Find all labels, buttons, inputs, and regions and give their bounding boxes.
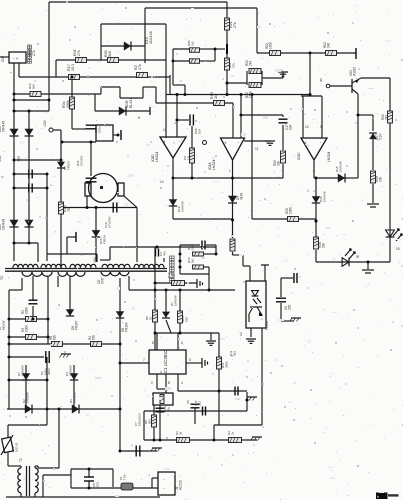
svg-text:390k: 390k: [224, 361, 228, 368]
svg-text:1N4148: 1N4148: [2, 121, 6, 132]
svg-text:11: 11: [255, 147, 259, 151]
svg-text:4: 4: [181, 381, 183, 385]
svg-text:IC1 UC3842: IC1 UC3842: [163, 349, 168, 374]
svg-text:5: 5: [189, 358, 191, 362]
svg-text:9: 9: [320, 125, 322, 129]
svg-text:EL431: EL431: [129, 98, 133, 108]
svg-text:3k: 3k: [178, 431, 182, 435]
svg-text:-18V: -18V: [0, 154, 2, 162]
svg-text:100k: 100k: [289, 207, 293, 214]
svg-text:1k2: 1k2: [190, 41, 194, 46]
svg-text:220: 220: [288, 304, 292, 310]
svg-text:27V/50V: 27V/50V: [107, 216, 111, 228]
svg-text:62k: 62k: [92, 334, 96, 340]
svg-text:100k: 100k: [25, 325, 29, 332]
svg-text:A1015: A1015: [353, 67, 357, 76]
svg-text:75: 75: [67, 208, 71, 212]
svg-text:961: 961: [147, 419, 151, 424]
svg-text:222: 222: [197, 401, 201, 406]
svg-text:1N4148: 1N4148: [173, 295, 177, 306]
svg-text:1N4148: 1N4148: [149, 31, 153, 44]
svg-text:27k: 27k: [32, 50, 36, 56]
svg-text:+: +: [10, 71, 12, 75]
svg-text:1N4148: 1N4148: [322, 191, 326, 202]
svg-text:104: 104: [289, 124, 293, 130]
svg-text:400V: 400V: [47, 368, 51, 375]
svg-text:1N4148: 1N4148: [2, 219, 6, 230]
svg-text:5k6: 5k6: [31, 84, 35, 89]
svg-text:100k: 100k: [66, 100, 70, 108]
svg-text:12: 12: [163, 128, 167, 132]
svg-text:7: 7: [143, 358, 145, 362]
svg-text:1k: 1k: [230, 431, 234, 435]
svg-text:+: +: [164, 140, 167, 145]
svg-text:17k: 17k: [138, 64, 142, 70]
svg-text:FR104: FR104: [102, 235, 106, 244]
svg-text:1N5399: 1N5399: [72, 392, 76, 403]
svg-text:FR104: FR104: [125, 322, 129, 332]
svg-text:13k: 13k: [379, 176, 383, 182]
svg-text:5k1: 5k1: [190, 258, 194, 263]
svg-text:4148: 4148: [240, 193, 244, 200]
svg-text:27V/5W: 27V/5W: [79, 155, 83, 166]
svg-text:150k: 150k: [269, 42, 273, 49]
svg-text:PC817: PC817: [265, 320, 269, 330]
svg-text:T1: T1: [19, 458, 23, 462]
svg-text:104: 104: [197, 129, 201, 134]
svg-text:27k: 27k: [233, 22, 237, 28]
svg-text:510: 510: [184, 317, 188, 322]
svg-text:U2: U2: [239, 332, 243, 336]
svg-text:+: +: [131, 444, 133, 448]
svg-text:10k: 10k: [170, 273, 174, 278]
svg-text:10u: 10u: [166, 407, 170, 412]
svg-text:8: 8: [313, 169, 315, 173]
svg-text:47u: 47u: [162, 251, 166, 256]
svg-text:51: 51: [148, 316, 152, 320]
svg-text:1N5399: 1N5399: [25, 392, 29, 403]
svg-text:100u: 100u: [97, 126, 101, 133]
svg-text:100k: 100k: [25, 307, 29, 314]
svg-text:CN7: CN7: [1, 55, 5, 62]
svg-text:2k2: 2k2: [385, 115, 389, 120]
svg-text:150k: 150k: [249, 91, 253, 98]
svg-text:- +: - +: [13, 56, 19, 61]
svg-text:240: 240: [327, 42, 331, 48]
svg-text:100u/16V: 100u/16V: [137, 413, 141, 426]
svg-text:2k0: 2k0: [322, 243, 326, 248]
svg-text:10D-11: 10D-11: [14, 442, 18, 452]
svg-text:2: 2: [151, 381, 153, 385]
svg-text:U5: U5: [186, 400, 190, 404]
svg-text:IC8C: IC8C: [297, 152, 301, 160]
svg-text:MQ2W: MQ2W: [1, 320, 5, 330]
svg-text:3k9: 3k9: [108, 51, 112, 57]
svg-text:014: 014: [190, 245, 194, 250]
svg-text:62k: 62k: [53, 334, 57, 340]
svg-text:2k4: 2k4: [249, 61, 253, 66]
svg-text:LM324: LM324: [327, 152, 331, 162]
svg-text:1: 1: [229, 169, 231, 173]
svg-text:1N: 1N: [186, 156, 190, 160]
svg-text:5V6: 5V6: [101, 278, 105, 284]
svg-text:18: 18: [396, 247, 400, 251]
svg-text:103: 103: [95, 482, 99, 487]
svg-text:LM324: LM324: [155, 152, 159, 162]
svg-text:1N5399: 1N5399: [68, 365, 72, 376]
svg-text:+5V: +5V: [93, 256, 97, 263]
svg-text:LM324: LM324: [212, 160, 216, 170]
svg-text:AC220: AC220: [179, 480, 183, 490]
svg-text:8: 8: [138, 116, 140, 120]
svg-text:FR104: FR104: [66, 161, 70, 170]
svg-text:1N4148: 1N4148: [180, 201, 184, 212]
svg-text:8: 8: [152, 341, 154, 345]
svg-text:1k: 1k: [214, 95, 218, 99]
svg-text:562: 562: [232, 351, 236, 356]
svg-text:27k: 27k: [77, 50, 81, 56]
svg-text:B: B: [168, 381, 170, 385]
svg-text:27k: 27k: [231, 63, 235, 68]
svg-text:+8V: +8V: [17, 155, 21, 162]
svg-text:b: b: [377, 495, 379, 499]
svg-text:T2: T2: [0, 276, 4, 280]
svg-text:20k: 20k: [277, 160, 281, 166]
svg-text:FR157: FR157: [75, 320, 79, 330]
svg-text:6: 6: [181, 341, 183, 345]
svg-text:3.9V: 3.9V: [379, 133, 383, 140]
svg-text:T3A: T3A: [122, 474, 126, 480]
svg-text:1N4148: 1N4148: [338, 161, 342, 172]
svg-text:10: 10: [305, 125, 309, 129]
svg-text:-10V: -10V: [43, 119, 47, 127]
svg-text:14: 14: [160, 180, 164, 184]
svg-text:15.1: 15.1: [71, 64, 75, 71]
svg-text:1N5399: 1N5399: [20, 365, 24, 376]
svg-text:+: +: [224, 141, 227, 146]
svg-text:+ + +: + + +: [142, 266, 149, 270]
